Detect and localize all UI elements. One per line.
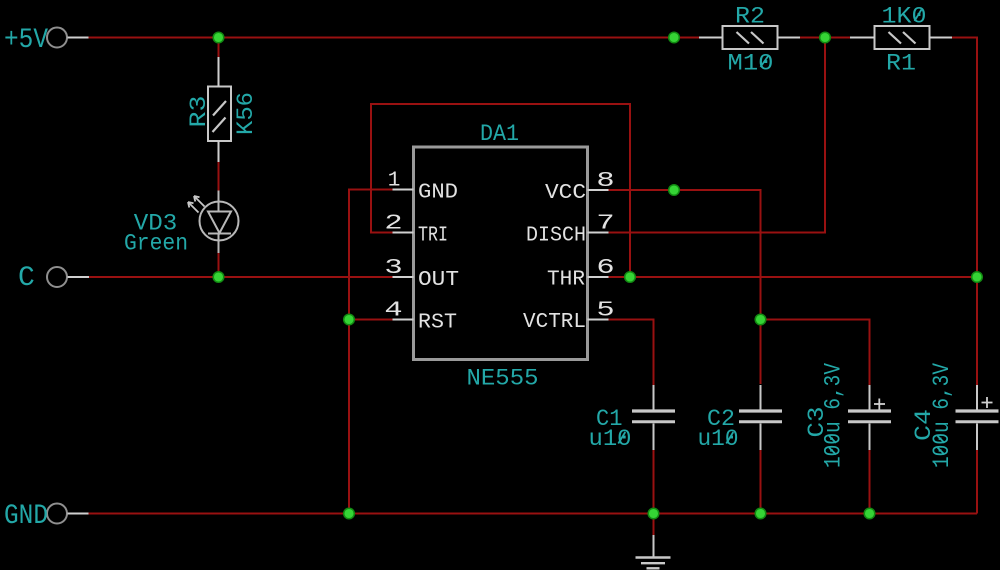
svg-text:Green: Green — [124, 231, 188, 258]
svg-text:VCTRL: VCTRL — [523, 311, 586, 334]
svg-text:4: 4 — [384, 298, 402, 322]
svg-text:NE555: NE555 — [467, 366, 539, 393]
svg-text:8: 8 — [596, 168, 614, 192]
svg-text:7: 7 — [596, 211, 614, 235]
svg-text:R2: R2 — [735, 4, 765, 31]
svg-text:1: 1 — [388, 170, 401, 193]
svg-text:THR: THR — [547, 269, 585, 292]
svg-text:u10: u10 — [698, 426, 739, 453]
svg-text:M10: M10 — [728, 51, 774, 78]
svg-text:C: C — [18, 263, 35, 294]
svg-text:3: 3 — [384, 255, 402, 279]
svg-text:1K0: 1K0 — [882, 4, 927, 31]
svg-text:R3: R3 — [186, 96, 213, 128]
svg-text:2: 2 — [384, 211, 402, 235]
svg-text:K56: K56 — [233, 92, 260, 135]
svg-text:DISCH: DISCH — [526, 225, 586, 248]
svg-text:VCC: VCC — [545, 182, 586, 205]
svg-text:R1: R1 — [886, 51, 916, 78]
svg-text:DA1: DA1 — [480, 121, 519, 148]
svg-text:+5V: +5V — [4, 25, 48, 56]
svg-text:6: 6 — [596, 255, 614, 279]
svg-text:u10: u10 — [589, 426, 632, 453]
svg-text:GND: GND — [418, 181, 458, 204]
svg-text:5: 5 — [596, 298, 614, 322]
svg-text:GND: GND — [4, 501, 48, 532]
svg-text:TRI: TRI — [418, 224, 448, 247]
svg-text:RST: RST — [418, 311, 457, 334]
svg-text:OUT: OUT — [418, 269, 459, 292]
